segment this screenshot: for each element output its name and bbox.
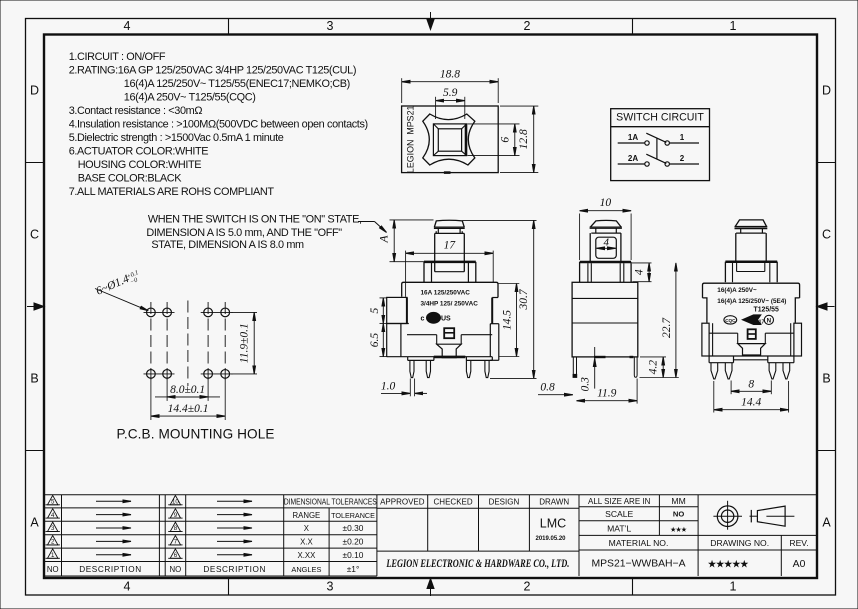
dim 11.9 pcb extension xyxy=(232,311,258,313)
dim 10 extension xyxy=(579,214,581,261)
projection symbol circle xyxy=(717,506,738,527)
zone tick top xyxy=(228,19,230,35)
back view inner guides xyxy=(712,323,714,356)
dim 6 extension xyxy=(468,123,520,125)
svg-text:DIMENSIONAL TOLERANCES: DIMENSIONAL TOLERANCES xyxy=(284,497,377,507)
svg-text:MPS21−WWBAH−A: MPS21−WWBAH−A xyxy=(591,559,685,570)
svg-text:30.7: 30.7 xyxy=(518,288,530,310)
dim 18.8 xyxy=(402,81,499,83)
dim 14.5 xyxy=(516,284,518,357)
wire 2A xyxy=(618,163,645,165)
front view center post xyxy=(437,344,462,358)
switch blade pole 1 xyxy=(646,133,666,142)
dim 4 window xyxy=(597,247,616,249)
side view button cap xyxy=(591,220,622,227)
dim 4 right xyxy=(648,263,650,282)
svg-text:1: 1 xyxy=(680,133,685,142)
dim 8 xyxy=(731,390,771,392)
back view brackets xyxy=(708,356,710,363)
dim 14.4 pcb xyxy=(151,415,225,417)
svg-text:RANGE: RANGE xyxy=(293,511,321,520)
svg-text:4: 4 xyxy=(124,580,131,594)
svg-text:C: C xyxy=(30,228,39,242)
svg-text:APPROVED: APPROVED xyxy=(380,498,425,507)
side view flange xyxy=(580,261,632,264)
front view body top with ears xyxy=(402,282,498,297)
svg-text:NO: NO xyxy=(673,510,684,519)
revision arrows xyxy=(96,500,131,502)
dim A leader ext xyxy=(390,219,434,221)
side view plunger xyxy=(589,233,591,262)
svg-text:0.8: 0.8 xyxy=(540,382,555,394)
back view body bottom xyxy=(709,355,794,357)
svg-text:11.9±0.1: 11.9±0.1 xyxy=(239,323,251,363)
front view terminal brackets xyxy=(407,357,409,361)
front view pin 3 xyxy=(466,360,470,377)
dim 14.4 xyxy=(714,409,789,411)
dim 17 extension xyxy=(405,251,407,297)
dim 18.8 extension xyxy=(401,78,403,103)
front view pin 2 xyxy=(426,360,430,377)
wire 1 xyxy=(669,142,699,144)
svg-text:16A 125/250VAC: 16A 125/250VAC xyxy=(421,290,471,297)
svg-text:N: N xyxy=(767,318,772,325)
dim 14.5 extension xyxy=(499,283,520,285)
svg-text:1.CIRCUIT : ON/OFF: 1.CIRCUIT : ON/OFF xyxy=(69,51,166,63)
back view pin 4 xyxy=(783,363,790,379)
mechanical link xyxy=(656,138,658,159)
svg-text:5.Dielectric strength : >1500V: 5.Dielectric strength : >1500Vac 0.5mA 1… xyxy=(69,132,284,144)
svg-text:LMC: LMC xyxy=(540,517,566,531)
back view flange xyxy=(725,260,777,263)
svg-text:MATERIAL NO.: MATERIAL NO. xyxy=(609,538,669,548)
svg-text:NO: NO xyxy=(170,565,182,574)
dim 12.8 extension xyxy=(500,105,538,107)
svg-text:6: 6 xyxy=(500,137,512,143)
side view left pin xyxy=(572,357,574,378)
zone tick left xyxy=(26,162,45,164)
centering mark left xyxy=(34,303,44,310)
svg-text:14.4: 14.4 xyxy=(741,397,761,409)
front view body bottom xyxy=(408,356,493,358)
dim 1.0 extension xyxy=(409,379,411,397)
centering mark top xyxy=(427,20,434,30)
dim 14.4 extension xyxy=(713,381,715,413)
dim 8.0 pcb extension xyxy=(166,380,168,401)
svg-text:X: X xyxy=(304,524,310,533)
svg-text:7.ALL MATERIALS ARE ROHS COMPL: 7.ALL MATERIALS ARE ROHS COMPLIANT xyxy=(69,186,275,198)
dim 11.9 pcb xyxy=(253,312,255,374)
centering mark right xyxy=(817,303,827,310)
svg-text:4: 4 xyxy=(51,512,55,519)
dim 0.8 xyxy=(538,394,573,396)
projection symbol cone xyxy=(750,510,752,523)
svg-text:★★★★★: ★★★★★ xyxy=(708,559,749,569)
zone tick right xyxy=(817,162,836,164)
back view NEMKO mark xyxy=(764,315,773,324)
front view body lower-right tab xyxy=(490,323,499,325)
svg-text:UL: UL xyxy=(428,314,438,323)
svg-text:±1°: ±1° xyxy=(347,564,360,574)
back view ENEC mark xyxy=(742,315,761,325)
company name xyxy=(385,558,569,570)
dim 6.5 extension xyxy=(380,356,388,358)
svg-text:MM: MM xyxy=(671,496,685,506)
front view center latch window xyxy=(444,328,454,338)
svg-text:1: 1 xyxy=(730,19,737,33)
svg-text:SCALE: SCALE xyxy=(605,509,633,519)
side view plunger window xyxy=(596,237,617,258)
svg-text:16(4)A 250V~: 16(4)A 250V~ xyxy=(717,287,757,294)
top view body xyxy=(402,106,499,173)
svg-text:±0.30: ±0.30 xyxy=(343,523,364,533)
svg-text:2: 2 xyxy=(524,19,531,33)
svg-text:6.5: 6.5 xyxy=(369,333,381,348)
svg-text:REV.: REV. xyxy=(789,538,808,548)
svg-text:ALL SIZE ARE IN: ALL SIZE ARE IN xyxy=(588,497,651,506)
front view flange xyxy=(424,261,476,264)
back view pin 2 xyxy=(725,363,732,379)
revision triangles xyxy=(48,495,58,504)
back view plunger xyxy=(735,233,737,262)
svg-text:4: 4 xyxy=(124,19,131,33)
dim 5.9 xyxy=(436,100,465,102)
dim 8.0 pcb xyxy=(155,396,220,398)
dim 5 xyxy=(382,298,384,324)
svg-text:1: 1 xyxy=(51,552,55,559)
svg-text:D: D xyxy=(30,84,39,98)
front view button cap xyxy=(434,220,464,227)
dim 14.4 pcb extension xyxy=(150,380,152,421)
svg-text:16(4)A 125/250V~ T125/55(ENEC1: 16(4)A 125/250V~ T125/55(ENEC17;NEMKO;CB… xyxy=(124,78,350,90)
dim 5.9 extension xyxy=(435,97,437,119)
svg-text:C: C xyxy=(822,228,831,242)
side view right pin xyxy=(634,357,637,377)
svg-text:4.2: 4.2 xyxy=(647,360,659,375)
svg-text:c: c xyxy=(421,316,425,323)
svg-text:US: US xyxy=(441,316,451,323)
tolerance table text xyxy=(284,497,377,507)
svg-text:±0.20: ±0.20 xyxy=(343,537,364,547)
svg-text:TOLERANCE: TOLERANCE xyxy=(331,511,375,520)
dim 22.7 xyxy=(675,263,677,378)
front view body ledge xyxy=(407,334,437,336)
dim 0.3 xyxy=(594,347,596,357)
svg-text:17: 17 xyxy=(444,239,457,251)
svg-text:3.Contact resistance : <30mΩ: 3.Contact resistance : <30mΩ xyxy=(69,105,203,117)
side view body xyxy=(572,282,638,357)
svg-text:★★★: ★★★ xyxy=(671,526,688,533)
svg-text:A0: A0 xyxy=(793,559,806,570)
contact 1A xyxy=(645,141,649,145)
back view pin 1 xyxy=(711,363,718,379)
front view body upper-left tab 5mm xyxy=(387,297,407,323)
svg-text:2.RATING:16A GP 125/250VAC 3/4: 2.RATING:16A GP 125/250VAC 3/4HP 125/250… xyxy=(69,64,356,76)
back view latch window xyxy=(748,329,756,339)
svg-text:B: B xyxy=(822,372,830,386)
svg-text:HOUSING COLOR:WHITE: HOUSING COLOR:WHITE xyxy=(78,159,202,171)
svg-text:NO: NO xyxy=(47,565,59,574)
top view bottom center tick xyxy=(444,171,451,174)
dim 11.9 extension xyxy=(636,379,638,404)
svg-text:17: 17 xyxy=(759,320,765,326)
dim 17 xyxy=(406,252,494,254)
svg-text:1A: 1A xyxy=(628,133,638,142)
svg-text:6.ACTUATOR COLOR:WHITE: 6.ACTUATOR COLOR:WHITE xyxy=(69,145,209,157)
svg-text:16(4)A 250V~ T125/55(CQC): 16(4)A 250V~ T125/55(CQC) xyxy=(124,91,256,103)
svg-text:8.0±0.1: 8.0±0.1 xyxy=(170,384,205,396)
front view plunger xyxy=(435,232,465,234)
svg-text:8: 8 xyxy=(748,378,754,390)
dim 5 extension xyxy=(380,297,388,299)
top view button outer square xyxy=(433,124,466,156)
back view button neck xyxy=(740,228,742,233)
svg-text:D: D xyxy=(822,84,831,98)
svg-text:14.4±0.1: 14.4±0.1 xyxy=(168,403,209,415)
svg-text:2: 2 xyxy=(51,539,55,546)
svg-text:16(4)A 125/250V~ (5E4): 16(4)A 125/250V~ (5E4) xyxy=(717,298,786,305)
svg-text:10: 10 xyxy=(600,197,612,209)
svg-text:3: 3 xyxy=(51,525,55,532)
svg-text:A: A xyxy=(379,235,391,244)
top view button inner square xyxy=(438,129,461,151)
svg-text:DESCRIPTION: DESCRIPTION xyxy=(79,565,142,574)
side view button neck xyxy=(595,228,597,233)
dim 1.0 xyxy=(381,392,410,394)
svg-text:CQC: CQC xyxy=(725,318,736,323)
dim 10 xyxy=(580,210,632,212)
svg-text:DRAWING NO.: DRAWING NO. xyxy=(710,538,769,548)
svg-text:B: B xyxy=(30,372,38,386)
switch circuit box xyxy=(611,109,710,181)
dim 6.5 xyxy=(382,323,384,356)
front view pin 4 xyxy=(485,360,489,377)
back view center post xyxy=(738,344,766,355)
svg-text:2019.05.20: 2019.05.20 xyxy=(535,536,566,542)
pcb hole centerlines xyxy=(144,311,175,313)
back view body top xyxy=(703,283,800,323)
back view left lug xyxy=(702,323,709,356)
dim 12.8 xyxy=(533,106,535,173)
svg-text:±0.10: ±0.10 xyxy=(343,550,364,560)
dim 11.9 xyxy=(577,400,638,402)
back view CQC mark xyxy=(724,316,737,324)
svg-text:4: 4 xyxy=(603,236,609,248)
dim 22.7 extension xyxy=(640,356,666,358)
svg-text:A: A xyxy=(822,516,831,530)
svg-text:MAT’L: MAT’L xyxy=(607,523,631,533)
front view body right edge xyxy=(491,298,493,324)
dim 30.7 xyxy=(533,220,535,378)
svg-text:3: 3 xyxy=(327,19,334,33)
switch blade pole 2 xyxy=(646,154,666,163)
svg-text:14.5: 14.5 xyxy=(502,310,514,330)
dim 6 xyxy=(514,124,516,156)
dim 4 right extension xyxy=(632,262,652,264)
dim 4.2 xyxy=(662,357,664,378)
back view ledge xyxy=(709,332,738,334)
svg-text:1: 1 xyxy=(730,580,737,594)
svg-text:2A: 2A xyxy=(628,154,638,163)
svg-text:6: 6 xyxy=(174,552,178,559)
svg-text:1.0: 1.0 xyxy=(381,381,396,393)
contact 1 xyxy=(665,141,669,145)
svg-text:9: 9 xyxy=(174,512,178,519)
svg-text:X.X: X.X xyxy=(300,538,313,547)
svg-text:4.Insulation resistance : >100: 4.Insulation resistance : >100MΩ(500VDC … xyxy=(69,118,368,130)
title block grid xyxy=(377,494,817,496)
revision table grid xyxy=(44,494,377,496)
svg-text:2: 2 xyxy=(680,154,685,163)
svg-text:X.XX: X.XX xyxy=(298,551,317,560)
svg-text:BASE COLOR:BLACK: BASE COLOR:BLACK xyxy=(78,172,183,184)
svg-text:A: A xyxy=(30,516,39,530)
svg-text:LEGION MPS21: LEGION MPS21 xyxy=(406,105,416,173)
svg-text:P.C.B. MOUNTING HOLE: P.C.B. MOUNTING HOLE xyxy=(116,426,274,441)
svg-text:5: 5 xyxy=(51,499,55,506)
svg-text:8: 8 xyxy=(174,525,178,532)
note leader to dim A xyxy=(358,221,375,223)
svg-text:2: 2 xyxy=(524,580,531,594)
dim 8 extension xyxy=(730,381,732,395)
zone tick bottom xyxy=(228,578,230,595)
svg-text:DESIGN: DESIGN xyxy=(489,498,520,507)
svg-text:3/4HP 125/ 250VAC: 3/4HP 125/ 250VAC xyxy=(421,301,479,308)
front view pin 1 xyxy=(410,360,414,377)
svg-text:5: 5 xyxy=(369,308,381,314)
svg-text:CHECKED: CHECKED xyxy=(434,498,473,507)
svg-text:DIMENSION A IS 5.0 mm, AND THE: DIMENSION A IS 5.0 mm, AND THE "OFF" xyxy=(146,227,342,239)
tolerance table grid xyxy=(328,508,330,576)
dim 30.7 extension xyxy=(463,219,537,221)
top view star button xyxy=(423,114,475,165)
pcb label 6-diam1.4 xyxy=(94,268,142,299)
svg-text:ANGLES: ANGLES xyxy=(291,565,321,574)
svg-text:7: 7 xyxy=(174,539,178,546)
svg-text:5.9: 5.9 xyxy=(443,87,458,99)
contact 2 xyxy=(665,162,669,166)
back view button cap xyxy=(735,220,766,227)
svg-text:LEGION ELECTRONIC & HARDWAR: LEGION ELECTRONIC & HARDWARE CO., LTD. xyxy=(385,558,569,570)
svg-text:WHEN THE SWITCH IS ON THE "ON": WHEN THE SWITCH IS ON THE "ON" STATE, xyxy=(148,213,362,225)
svg-text:22.7: 22.7 xyxy=(661,317,673,338)
svg-text:0.3: 0.3 xyxy=(579,377,591,392)
svg-text:3: 3 xyxy=(327,580,334,594)
back view pin 3 xyxy=(769,363,776,379)
wire 1A xyxy=(618,142,645,144)
side view standoffs xyxy=(594,356,606,358)
svg-text:10: 10 xyxy=(172,499,179,506)
svg-text:11.9: 11.9 xyxy=(597,388,617,400)
front view button neck xyxy=(437,228,439,233)
centering mark bottom xyxy=(427,579,434,589)
svg-text:T125/55: T125/55 xyxy=(754,307,779,314)
svg-text:18.8: 18.8 xyxy=(440,68,460,80)
front view body lower-left tab 6.5mm xyxy=(386,324,388,357)
back view right lug xyxy=(794,323,802,356)
contact 2A xyxy=(645,162,649,166)
wire 2 xyxy=(669,163,699,165)
pcb holes 6-diam1.4 xyxy=(147,308,156,317)
svg-text:4: 4 xyxy=(634,269,646,275)
dim A xyxy=(393,220,395,262)
svg-text:DRAWN: DRAWN xyxy=(539,498,569,507)
svg-text:12.8: 12.8 xyxy=(518,129,530,149)
svg-text:DESCRIPTION: DESCRIPTION xyxy=(203,565,266,574)
svg-text:STATE, DIMENSION A IS 8.0 mm: STATE, DIMENSION A IS 8.0 mm xyxy=(151,239,304,251)
svg-text:SWITCH CIRCUIT: SWITCH CIRCUIT xyxy=(616,111,704,123)
